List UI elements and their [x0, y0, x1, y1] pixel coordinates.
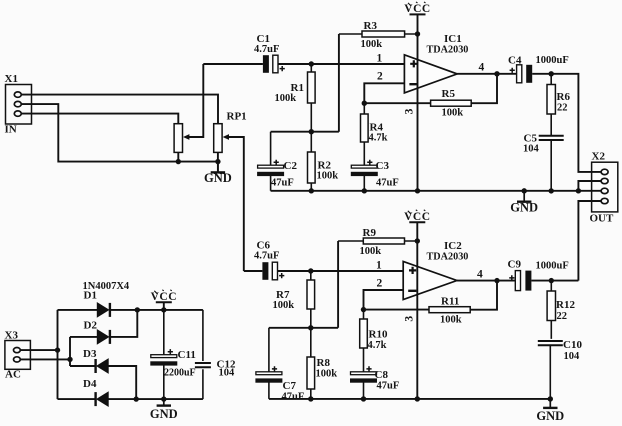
- wire RP1b wiper line to C6 left plate: [244, 270, 263, 272]
- junction R3 / VCC line: [415, 31, 420, 36]
- wire IC1 pin5 VCC / pin3 vertical line: [417, 14, 419, 190]
- svg-text:IC1: IC1: [444, 33, 462, 45]
- pin 4 label (IC2): [477, 269, 483, 281]
- svg-text:4.7uF: 4.7uF: [254, 251, 279, 262]
- label 1N4007X4: [83, 281, 130, 292]
- capacitor C8 47uF: [350, 366, 399, 399]
- svg-text:100k: 100k: [317, 171, 339, 182]
- label TDA2030 (IC2): [427, 252, 469, 263]
- ground (channel 1): [510, 191, 538, 215]
- wire C1 to IC1 noninverting input: [278, 63, 404, 65]
- junction C1 / R1: [309, 61, 314, 66]
- svg-text:D2: D2: [84, 320, 98, 332]
- junction R9 / VCC line: [415, 238, 420, 243]
- svg-text:2: 2: [377, 277, 383, 289]
- wire D4 cathode: [58, 398, 95, 400]
- wire node B horizontal (R7/R8/C7/R9): [269, 327, 338, 329]
- junction C3 / ground rail: [362, 188, 367, 193]
- junction IC2 output: [494, 278, 499, 283]
- junction C10 / ground rail 2: [548, 396, 553, 401]
- svg-text:AC: AC: [5, 369, 21, 381]
- svg-text:IC2: IC2: [444, 240, 462, 252]
- svg-text:C11: C11: [178, 349, 196, 361]
- junction GND symbol / ground rail: [522, 188, 527, 193]
- capacitor C6 4.7uF: [254, 240, 284, 280]
- wire channel 1 ground rail: [271, 190, 601, 192]
- svg-text:R8: R8: [317, 357, 331, 369]
- svg-text:4.7k: 4.7k: [369, 133, 388, 144]
- wire C6 to IC2 noninverting input: [278, 270, 404, 272]
- label D4: [83, 378, 97, 390]
- ground (channel 2): [536, 399, 564, 423]
- wire channel 2 ground rail: [269, 398, 550, 400]
- wire X1 pin3 to RP1a top: [21, 114, 178, 124]
- junction node A: [309, 129, 314, 134]
- wire C4 to X2 pin1: [532, 74, 601, 172]
- wire D1 anode: [58, 309, 98, 311]
- svg-text:47uF: 47uF: [377, 380, 400, 391]
- svg-text:RP1: RP1: [227, 111, 247, 123]
- svg-text:TDA2030: TDA2030: [427, 45, 469, 56]
- wire X2 pin2 to ground rail: [578, 181, 601, 191]
- diode D4 1N4007: [96, 392, 109, 406]
- wire VCC stem: [163, 302, 165, 310]
- svg-text:TDA2030: TDA2030: [427, 252, 469, 263]
- svg-text:C9: C9: [508, 259, 522, 271]
- junction D1/D2 cathodes: [135, 307, 140, 312]
- wire D3 cathode: [70, 365, 95, 367]
- junction X3 pin2 / bus B: [67, 357, 72, 362]
- pin 2 label (IC2): [377, 277, 383, 289]
- capacitor C7 47uF: [255, 328, 304, 403]
- svg-text:22: 22: [557, 103, 568, 114]
- pin 1 label (IC1): [377, 53, 383, 65]
- svg-text:R10: R10: [369, 329, 388, 341]
- wire RP1a wiper to C1: [189, 64, 204, 137]
- op-amp IC2 input polarity marks: [408, 267, 416, 291]
- svg-text:X1: X1: [5, 73, 18, 85]
- svg-text:104: 104: [523, 144, 540, 155]
- svg-text:100k: 100k: [273, 300, 295, 311]
- svg-text:1: 1: [376, 260, 382, 272]
- ground (power supply): [150, 399, 178, 421]
- junction C8 / ground rail 2: [361, 396, 366, 401]
- wire RP1b wiper to C6 (channel 2 input): [228, 137, 244, 271]
- junction C6 / R7: [308, 268, 313, 273]
- junction VCC stem / rectified rail: [161, 307, 166, 312]
- svg-text:R6: R6: [557, 91, 571, 103]
- wire C9 to X2 pin4 junction: [531, 280, 578, 282]
- wire R5 to output junction: [471, 74, 497, 103]
- svg-text:R12: R12: [556, 299, 575, 311]
- pin 2 label (IC1): [377, 71, 383, 83]
- svg-text:C7: C7: [283, 380, 297, 392]
- svg-text:C10: C10: [563, 339, 582, 351]
- resistor R7 100k: [273, 271, 315, 328]
- connector X1 (IN): [5, 73, 32, 136]
- svg-text:100k: 100k: [275, 93, 297, 104]
- wire node A horizontal (R1/R2/C2/R3): [271, 131, 339, 133]
- junction R2 / ground rail: [309, 188, 314, 193]
- svg-text:100k: 100k: [360, 246, 382, 257]
- svg-text:C3: C3: [376, 160, 390, 172]
- label D2: [84, 320, 98, 332]
- svg-text:4.7uF: 4.7uF: [254, 44, 279, 55]
- wire IC2 inverting input to feedback node: [364, 290, 404, 310]
- svg-text:47uF: 47uF: [271, 178, 294, 189]
- wire RP1a wiper node to C1 left plate: [203, 63, 263, 65]
- label TDA2030 (IC1): [427, 45, 469, 56]
- wire R9 left leg to node B: [337, 241, 339, 328]
- capacitor C1 4.7uF: [254, 33, 285, 73]
- VCC supply symbol (rectifier output): [151, 290, 177, 303]
- svg-text:104: 104: [219, 368, 236, 379]
- wire RP1a bottom lead: [177, 152, 179, 161]
- op-amp IC1 input polarity marks: [409, 60, 417, 84]
- pin 3 label (IC2): [403, 316, 415, 322]
- svg-text:2200uF: 2200uF: [164, 368, 196, 379]
- svg-text:22: 22: [557, 311, 568, 322]
- svg-text:GND: GND: [150, 407, 178, 421]
- svg-text:4: 4: [479, 62, 485, 74]
- svg-text:VCC: VCC: [151, 291, 177, 303]
- wire bridge bus B (D2 anode - D3 cathode): [69, 337, 71, 366]
- wire X3 pin1 to bridge bus A: [20, 349, 57, 351]
- capacitor C5 104: [523, 133, 564, 191]
- wire R11 to output junction: [470, 281, 497, 310]
- wire D2 cathode up to D1 cathode: [111, 310, 138, 337]
- svg-text:4: 4: [477, 269, 483, 281]
- svg-text:OUT: OUT: [590, 213, 615, 225]
- label D1: [84, 290, 97, 302]
- wire X1 pin2 to input ground rail: [21, 104, 218, 162]
- wire D2 anode: [70, 336, 97, 338]
- svg-text:GND: GND: [510, 201, 538, 215]
- resistor R3 100k: [339, 20, 418, 50]
- svg-text:C8: C8: [375, 369, 389, 381]
- junction IC1 pin3 / ground rail: [415, 188, 420, 193]
- junction feedback node (R10/R11/pin2): [361, 307, 366, 312]
- svg-text:R5: R5: [442, 88, 456, 100]
- svg-text:X3: X3: [5, 330, 19, 342]
- wire feedback node to R11: [364, 309, 430, 311]
- svg-text:100k: 100k: [442, 108, 464, 119]
- svg-text:D3: D3: [83, 348, 97, 360]
- junction C11 / supply ground rail: [161, 396, 166, 401]
- svg-text:2: 2: [377, 71, 383, 83]
- pin 4 label (IC1): [479, 62, 485, 74]
- resistor R10 4.7k: [360, 310, 388, 372]
- capacitor C3 47uF: [351, 160, 399, 191]
- svg-text:100k: 100k: [316, 369, 338, 380]
- VCC supply symbol (channel 1): [404, 2, 430, 15]
- resistor R9 100k: [338, 227, 417, 257]
- junction node B: [308, 325, 313, 330]
- svg-text:4.7k: 4.7k: [368, 340, 387, 351]
- potentiometer RP1 unit B: [214, 111, 247, 153]
- wire X1 pin1 to RP1b top: [21, 95, 218, 124]
- wire R3 left leg to node A: [338, 34, 340, 132]
- wire bridge bus A (D1 anode - D4 cathode): [57, 310, 59, 399]
- svg-text:D1: D1: [84, 290, 97, 302]
- junction D3/D4 anodes: [134, 396, 139, 401]
- junction RP1b bottom / ground rail: [215, 159, 220, 164]
- op-amp IC2 TDA2030: [403, 261, 457, 299]
- resistor R11 100k: [429, 296, 470, 326]
- svg-text:1000uF: 1000uF: [536, 261, 569, 272]
- diode D3 1N4007: [96, 359, 109, 373]
- svg-text:GND: GND: [536, 409, 564, 423]
- svg-text:C4: C4: [508, 55, 522, 67]
- svg-text:VCC: VCC: [404, 211, 430, 223]
- wire feedback node to R5: [364, 102, 430, 104]
- ground (input section): [204, 162, 232, 186]
- resistor R4 4.7k: [361, 103, 388, 165]
- junction RP1a bottom / ground rail: [176, 159, 181, 164]
- capacitor C2 47uF: [257, 132, 297, 191]
- svg-text:R9: R9: [363, 227, 377, 239]
- diode D1 1N4007: [97, 303, 110, 317]
- junction feedback node (R4/R5/pin2): [362, 101, 367, 106]
- resistor R12 22: [547, 281, 575, 339]
- junction C5 / ground rail: [549, 188, 554, 193]
- wire X3 pin2 to bridge bus B: [20, 358, 70, 360]
- junction C9 / R12: [549, 278, 554, 283]
- junction R8 / ground rail 2: [308, 396, 313, 401]
- wire D4 anode to supply ground rail: [108, 398, 203, 400]
- diode D2 1N4007: [97, 330, 110, 344]
- svg-text:3: 3: [404, 108, 416, 114]
- svg-text:R3: R3: [364, 20, 378, 32]
- svg-text:100k: 100k: [440, 315, 462, 326]
- connector X3 (AC): [5, 330, 31, 381]
- svg-text:VCC: VCC: [404, 3, 430, 15]
- wire IC1 output pin4: [457, 73, 516, 75]
- capacitor C11 2200uF: [150, 310, 196, 399]
- pin 3 label (IC1): [404, 108, 416, 114]
- wire X2 pin4 to channel 2 output: [578, 201, 601, 281]
- capacitor C4 1000uF: [508, 55, 569, 83]
- svg-text:1: 1: [377, 53, 383, 65]
- wire D1 cathode to VCC rail: [111, 309, 203, 311]
- svg-text:3: 3: [403, 316, 415, 322]
- label IC2: [444, 240, 462, 252]
- resistor R2 100k: [308, 132, 339, 191]
- junction X3 pin1 / bus A: [55, 347, 60, 352]
- capacitor C12 104: [195, 310, 236, 399]
- resistor R8 100k: [307, 328, 337, 399]
- label D3: [83, 348, 97, 360]
- op-amp IC1 TDA2030: [404, 55, 457, 93]
- wire IC2 pin5 VCC / pin3 vertical line: [416, 222, 418, 399]
- svg-text:1000uF: 1000uF: [536, 55, 569, 66]
- capacitor C9 1000uF: [508, 259, 569, 291]
- svg-text:R2: R2: [318, 160, 332, 172]
- potentiometer RP1 unit A: [174, 124, 189, 153]
- svg-text:D4: D4: [83, 378, 97, 390]
- svg-text:104: 104: [564, 351, 581, 362]
- junction C4 / R6: [549, 71, 554, 76]
- capacitor C10 104: [538, 339, 583, 399]
- svg-text:100k: 100k: [361, 39, 383, 50]
- connector X2 (OUT): [590, 151, 618, 225]
- svg-text:X2: X2: [592, 151, 606, 163]
- svg-text:GND: GND: [204, 171, 232, 185]
- svg-text:47uF: 47uF: [282, 391, 305, 402]
- svg-text:IN: IN: [5, 124, 17, 136]
- junction IC2 pin3 / ground rail 2: [415, 396, 420, 401]
- pin 1 label (IC2): [376, 260, 382, 272]
- wire IC1 inverting input to feedback node: [364, 83, 404, 103]
- wire D3 anode down to D4 anode: [108, 366, 137, 399]
- VCC supply symbol (channel 2): [404, 210, 430, 223]
- svg-text:47uF: 47uF: [376, 178, 399, 189]
- resistor R6 22: [547, 74, 570, 136]
- junction IC1 output: [494, 71, 499, 76]
- resistor R5 100k: [431, 88, 472, 119]
- wire IC2 output pin4: [457, 280, 515, 282]
- label IC1: [444, 33, 462, 45]
- junction X2 pin2 leg / ground rail: [576, 188, 581, 193]
- wire RP1b bottom lead to ground: [217, 152, 219, 171]
- svg-text:R11: R11: [441, 296, 459, 308]
- resistor R1 100k: [275, 64, 316, 132]
- svg-text:C2: C2: [284, 160, 298, 172]
